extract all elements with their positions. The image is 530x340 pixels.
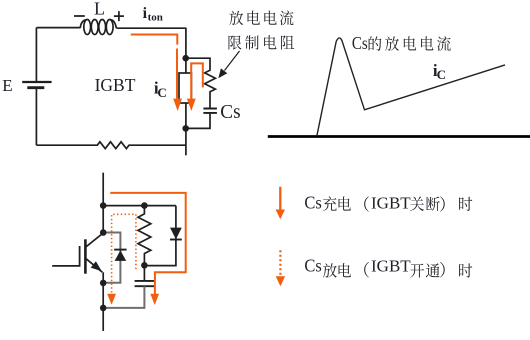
svg-text:Cs: Cs	[304, 256, 321, 276]
svg-text:Cs: Cs	[352, 33, 368, 53]
svg-text:IGBT: IGBT	[371, 257, 411, 276]
svg-text:E: E	[2, 76, 12, 95]
svg-text:IGBT: IGBT	[371, 194, 411, 213]
svg-text:IGBT: IGBT	[95, 75, 136, 95]
svg-text:Cs: Cs	[304, 193, 321, 213]
svg-text:C: C	[157, 85, 166, 100]
svg-text:C: C	[437, 67, 446, 82]
svg-text:ton: ton	[148, 11, 163, 23]
svg-text:Cs: Cs	[220, 101, 240, 123]
svg-text:L: L	[94, 0, 105, 19]
